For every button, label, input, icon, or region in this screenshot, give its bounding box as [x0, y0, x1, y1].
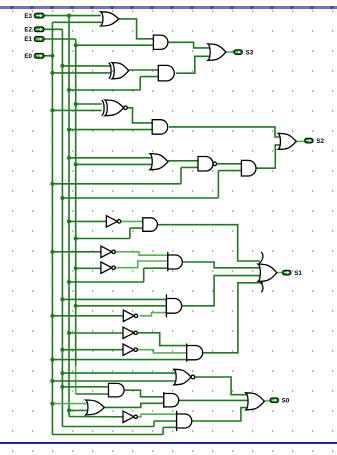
svg-text:E0: E0 [24, 53, 32, 60]
svg-text:E3: E3 [24, 13, 32, 20]
svg-text:E2: E2 [24, 27, 32, 34]
svg-text:S2: S2 [316, 138, 324, 145]
svg-text:S1: S1 [294, 270, 302, 277]
svg-text:S3: S3 [246, 49, 254, 56]
svg-text:S0: S0 [282, 398, 290, 405]
svg-text:E1: E1 [24, 36, 32, 43]
